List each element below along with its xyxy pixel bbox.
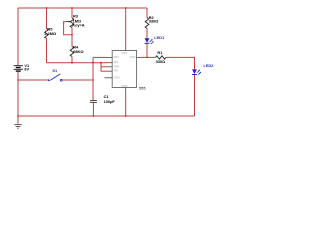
wire top rail bbox=[18, 7, 147, 9]
potentiometer R3 wiper arrow bbox=[66, 21, 69, 23]
wire battery top bbox=[17, 8, 19, 65]
svg-text:THR: THR bbox=[114, 64, 120, 68]
wire TRI lead bbox=[101, 70, 107, 72]
svg-text:LED2: LED2 bbox=[203, 63, 214, 68]
wire RST net vertical bbox=[92, 57, 94, 100]
node junction DIS crossing bbox=[92, 62, 94, 64]
switch S1 bbox=[48, 74, 62, 81]
op-amp U1 555 timer body bbox=[105, 47, 141, 93]
svg-text:DIS: DIS bbox=[114, 60, 119, 64]
svg-text:R1: R1 bbox=[157, 50, 163, 55]
svg-text:GND: GND bbox=[121, 84, 127, 88]
wire R2 top lead bbox=[146, 8, 148, 18]
wire DIS rail bbox=[47, 62, 108, 64]
potentiometer R3 bbox=[70, 18, 74, 28]
resistor R4 bbox=[70, 47, 74, 57]
wire switch right bbox=[62, 79, 93, 81]
svg-text:TRI: TRI bbox=[114, 69, 119, 73]
svg-text:VCC: VCC bbox=[122, 51, 128, 55]
svg-text:OUT: OUT bbox=[130, 55, 136, 59]
LED1 bbox=[145, 38, 154, 44]
LED2 bbox=[192, 69, 201, 74]
ground bbox=[14, 125, 22, 129]
wire OUT to R1 bbox=[141, 56, 156, 58]
resistor R5 bbox=[45, 29, 49, 39]
node junction wiper bbox=[71, 34, 73, 36]
wire R4 bottom lead bbox=[71, 57, 73, 63]
wire RST horizontal bbox=[93, 56, 107, 58]
wire bottom rail bbox=[18, 115, 195, 117]
node junction battery switch bbox=[17, 79, 19, 81]
wire LED1 to OUT bbox=[146, 44, 148, 58]
wire battery bottom to ground bbox=[17, 72, 19, 125]
svg-text:6V: 6V bbox=[24, 67, 29, 72]
wire wiper loop bbox=[64, 22, 72, 35]
wire R5 bottom lead bbox=[46, 39, 48, 63]
svg-text:Key=A: Key=A bbox=[72, 22, 84, 27]
wire THR lead bbox=[101, 66, 107, 68]
node junction R4 DIS rail bbox=[71, 62, 73, 64]
wire LED2 to bottom rail bbox=[194, 75, 196, 116]
node junction top R3 bbox=[71, 7, 73, 9]
svg-text:68KΩ: 68KΩ bbox=[73, 49, 83, 54]
node junction OUT LED1 bbox=[146, 57, 148, 59]
node junction tie bbox=[100, 62, 102, 64]
wire R2 to LED1 bbox=[146, 29, 148, 39]
svg-text:330Ω: 330Ω bbox=[156, 59, 166, 64]
wire C1 bottom bbox=[92, 103, 94, 116]
svg-text:100µF: 100µF bbox=[104, 99, 116, 104]
svg-text:555: 555 bbox=[139, 85, 146, 90]
node junction switch net bbox=[92, 79, 94, 81]
wire switch left bbox=[18, 79, 48, 81]
node junction top VCC bbox=[125, 7, 127, 9]
wire R3 top lead bbox=[71, 8, 73, 18]
resistor R1 bbox=[156, 56, 166, 59]
wire R1 to LED2 bbox=[166, 57, 195, 69]
svg-text:LED1: LED1 bbox=[154, 35, 165, 40]
node junction top R5 bbox=[46, 7, 48, 9]
node junction C1 rail bbox=[93, 115, 95, 117]
wire THR TRI tie vertical bbox=[100, 63, 102, 71]
wire R3 bottom lead bbox=[71, 28, 73, 47]
wire VCC lead bbox=[125, 8, 127, 47]
node junction rail left bbox=[17, 115, 19, 117]
battery V1 bbox=[14, 66, 23, 71]
svg-text:RST: RST bbox=[114, 55, 120, 59]
svg-text:S1: S1 bbox=[52, 68, 58, 73]
svg-text:CON: CON bbox=[114, 75, 120, 79]
node junction GND rail bbox=[125, 115, 127, 117]
svg-text:330Ω: 330Ω bbox=[149, 18, 159, 23]
resistor R2 bbox=[145, 18, 149, 29]
capacitor C1 bbox=[90, 101, 97, 103]
wire R5 top lead bbox=[46, 8, 48, 29]
svg-text:2.2MΩ: 2.2MΩ bbox=[44, 31, 56, 36]
wire GND lead bbox=[125, 93, 127, 117]
